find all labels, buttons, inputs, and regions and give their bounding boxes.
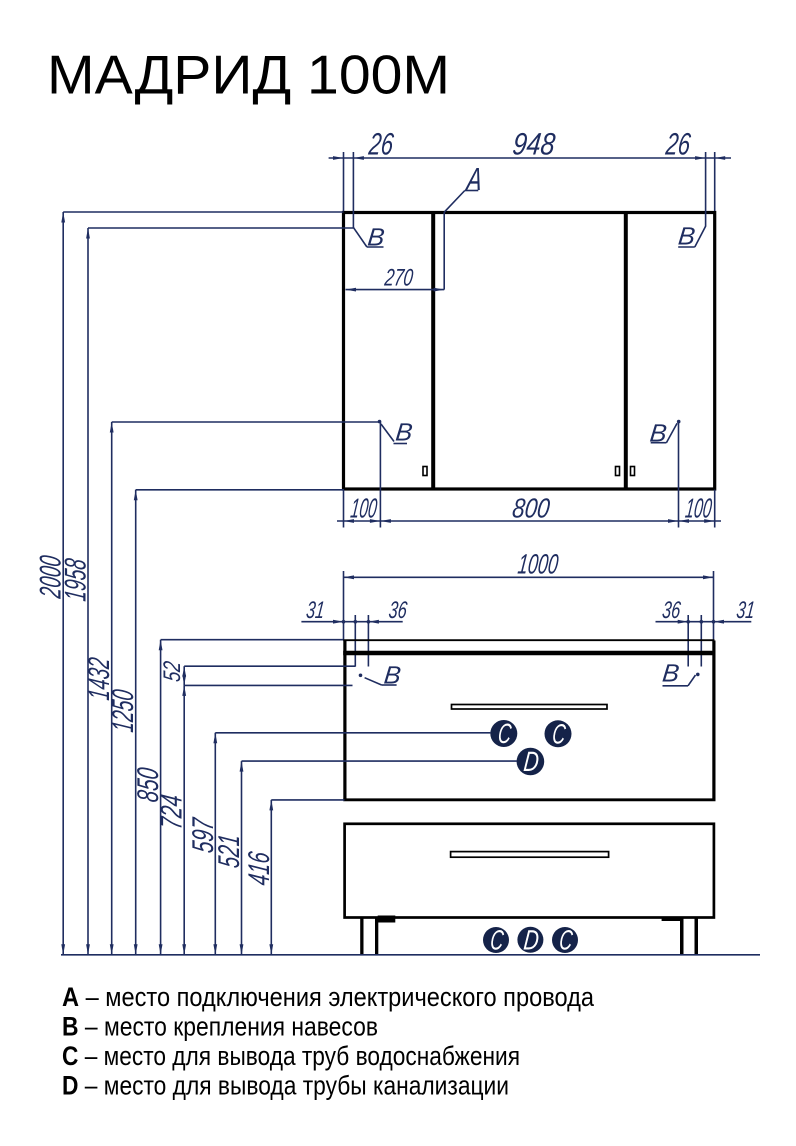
dimension 31/36 right	[656, 615, 752, 667]
door handle right	[631, 467, 635, 476]
label 1000	[516, 549, 560, 580]
svg-text:26: 26	[366, 127, 395, 162]
foot plate left	[378, 916, 396, 923]
marker D drain	[517, 746, 545, 777]
mirror cabinet outline	[344, 213, 715, 490]
svg-text:100: 100	[349, 493, 379, 524]
mirror cabinet left door divider	[431, 214, 435, 488]
dimension 31/36 left	[301, 615, 402, 667]
svg-text:A – место подключения электрич: A – место подключения электрического про…	[62, 982, 595, 1012]
callout B washbasin left	[359, 661, 403, 689]
height dimension 2000	[35, 212, 344, 955]
callout B washbasin right	[661, 659, 700, 687]
mirror cabinet right door divider	[624, 214, 628, 488]
leg left outer	[360, 918, 363, 956]
svg-text:A: A	[464, 161, 484, 197]
svg-text:521: 521	[213, 833, 246, 870]
svg-text:36: 36	[661, 597, 683, 624]
svg-text:C – место для вывода труб водо: C – место для вывода труб водоснабжения	[62, 1041, 520, 1071]
label 26 right	[663, 127, 692, 162]
svg-text:D: D	[522, 924, 540, 955]
height dimension 724	[156, 685, 353, 954]
label 36 left	[387, 597, 409, 624]
callout A electrical connection	[444, 161, 484, 290]
washbasin cabinet handle	[452, 705, 608, 710]
svg-text:B: B	[394, 419, 414, 447]
svg-text:31: 31	[735, 597, 756, 624]
marker C water supply right	[545, 718, 572, 749]
label 270	[383, 264, 415, 291]
dimension line 26/948/26	[329, 152, 731, 228]
height dimension 1958	[60, 228, 354, 955]
foot plate right	[662, 917, 682, 921]
label 100 right	[684, 493, 714, 524]
svg-text:B: B	[648, 420, 668, 448]
drawer unit outline	[345, 824, 714, 918]
label 948	[511, 127, 558, 162]
svg-text:B: B	[366, 224, 386, 252]
door handle middle	[616, 467, 620, 476]
svg-text:52: 52	[159, 659, 186, 683]
drawer handle	[451, 852, 609, 858]
door handle left	[423, 467, 427, 476]
label 800	[511, 493, 552, 524]
legend B	[62, 1012, 378, 1042]
height dimension 597	[187, 733, 491, 955]
washbasin cabinet countertop	[343, 640, 714, 653]
svg-text:36: 36	[387, 597, 409, 624]
label 100 left	[349, 493, 379, 524]
legend A	[62, 982, 595, 1012]
height dimension 416	[243, 800, 345, 955]
marker C bottom left	[483, 925, 509, 956]
callout B top-right	[677, 223, 706, 251]
marker C bottom right	[552, 925, 578, 956]
callout B bottom-right of mirror cabinet	[648, 420, 680, 448]
dimension line 100/800/100	[337, 422, 721, 528]
marker C water supply left	[490, 718, 517, 749]
leg right inner	[680, 918, 684, 956]
svg-text:270: 270	[383, 264, 415, 291]
title МАДРИД 100М	[47, 44, 450, 106]
height dimension 850	[132, 640, 343, 955]
marker D bottom	[517, 924, 543, 955]
callout B top-left	[353, 224, 385, 252]
legend C	[62, 1041, 520, 1071]
dimension 52	[159, 659, 355, 685]
label 36 right	[661, 597, 683, 624]
svg-text:B: B	[383, 661, 403, 689]
svg-text:31: 31	[305, 597, 326, 624]
svg-text:МАДРИД 100М: МАДРИД 100М	[47, 44, 450, 106]
label 31 left	[305, 597, 326, 624]
svg-text:800: 800	[511, 493, 552, 524]
washbasin cabinet body	[343, 641, 715, 800]
dimension 270	[346, 288, 445, 292]
svg-text:1250: 1250	[107, 688, 140, 734]
svg-text:416: 416	[243, 850, 276, 887]
height dimension 521	[213, 761, 517, 955]
label 31 right	[735, 597, 756, 624]
dimension 1000	[344, 571, 714, 641]
height dimension 1250	[107, 490, 344, 955]
svg-text:1000: 1000	[516, 549, 560, 580]
svg-text:724: 724	[156, 793, 189, 831]
svg-text:26: 26	[663, 127, 692, 162]
svg-text:B: B	[661, 659, 681, 687]
height dimension 1432	[83, 422, 379, 955]
floor line	[61, 954, 760, 956]
svg-text:948: 948	[511, 127, 558, 162]
svg-text:1958: 1958	[60, 557, 93, 603]
callout B bottom-left of mirror cabinet	[378, 419, 414, 447]
svg-text:100: 100	[684, 493, 714, 524]
svg-text:B: B	[677, 223, 697, 251]
legend D	[62, 1071, 509, 1101]
svg-text:B – место крепления навесов: B – место крепления навесов	[62, 1012, 378, 1042]
leg left inner	[375, 918, 378, 956]
svg-text:D – место для вывода трубы кан: D – место для вывода трубы канализации	[62, 1071, 509, 1101]
label 26 left	[366, 127, 395, 162]
leg right outer	[695, 918, 699, 956]
